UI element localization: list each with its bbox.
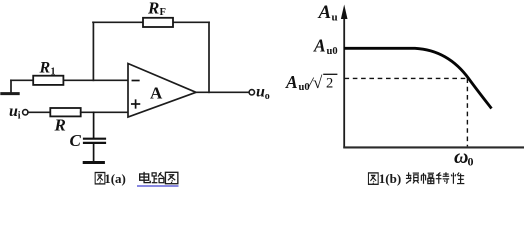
op-amp plus sign: [132, 100, 140, 108]
svg-text:u: u: [256, 84, 265, 101]
svg-text:A: A: [318, 2, 332, 23]
svg-text:A: A: [285, 72, 298, 92]
svg-text:C: C: [70, 131, 82, 150]
wire R1 to inverting input: [63, 79, 128, 81]
terminal ui: [23, 110, 28, 115]
caption 图1(a) 电路图: [95, 171, 178, 186]
svg-text:2: 2: [326, 76, 333, 92]
caption 图1(b) 频幅特性: [368, 171, 464, 186]
svg-text:ω: ω: [454, 146, 468, 168]
svg-text:R: R: [39, 60, 51, 77]
wire top feedback horizontal: [93, 21, 209, 23]
svg-text:u: u: [332, 12, 338, 24]
ground (capacitor): [84, 161, 103, 164]
svg-text:1(a): 1(a): [104, 171, 126, 186]
svg-text:o: o: [265, 91, 270, 102]
label Au0/sqrt2: [285, 72, 337, 93]
ground (left): [2, 80, 18, 93]
wire output: [196, 91, 249, 93]
svg-text:u: u: [9, 103, 18, 120]
caption link underline: [137, 185, 179, 187]
wire R to non-inverting input: [81, 111, 128, 113]
response curve: [344, 48, 492, 108]
y-axis with arrow: [341, 5, 348, 149]
wire ground to R1: [11, 79, 34, 81]
svg-text:0: 0: [468, 155, 474, 169]
svg-text:R: R: [147, 0, 159, 17]
resistor R: [50, 108, 80, 116]
wire feedback left vertical: [92, 22, 94, 80]
svg-text:u0: u0: [327, 46, 338, 57]
svg-text:R: R: [54, 116, 66, 135]
svg-text:1(b): 1(b): [379, 171, 401, 186]
dashed -3dB horizontal: [345, 77, 469, 79]
resistor RF: [143, 18, 173, 27]
terminal uo: [249, 90, 254, 95]
svg-text:A: A: [313, 35, 326, 55]
svg-text:1: 1: [51, 67, 56, 78]
wire feedback right vertical: [208, 22, 210, 92]
dashed omega0 vertical: [466, 78, 468, 146]
wire ui to R: [28, 111, 51, 113]
x-axis: [343, 146, 524, 148]
capacitor C: [84, 112, 105, 161]
svg-text:A: A: [150, 84, 163, 103]
resistor R1: [33, 76, 63, 85]
svg-text:√: √: [313, 73, 323, 92]
svg-text:F: F: [160, 7, 166, 18]
svg-text:i: i: [18, 111, 21, 122]
op-amp A: [128, 64, 196, 118]
op-amp minus sign: [132, 80, 138, 82]
